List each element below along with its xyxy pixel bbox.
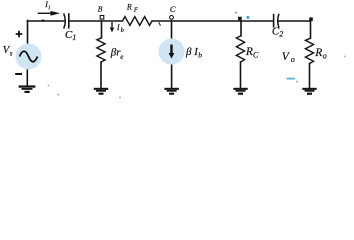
- svg-text:o: o: [291, 55, 295, 64]
- svg-text:C: C: [253, 50, 259, 59]
- svg-text:2: 2: [279, 30, 283, 39]
- svg-text:β I: β I: [185, 46, 199, 58]
- svg-text:b: b: [198, 50, 202, 59]
- svg-text:s: s: [10, 49, 13, 57]
- svg-text:o: o: [323, 52, 327, 61]
- svg-text:R: R: [314, 47, 322, 59]
- svg-text:I: I: [116, 23, 120, 32]
- svg-text:R: R: [245, 46, 253, 58]
- svg-text:C: C: [170, 4, 176, 14]
- svg-text:1: 1: [72, 33, 76, 42]
- svg-text:e: e: [120, 53, 123, 61]
- svg-text:B: B: [98, 5, 103, 14]
- svg-text:R: R: [126, 3, 132, 12]
